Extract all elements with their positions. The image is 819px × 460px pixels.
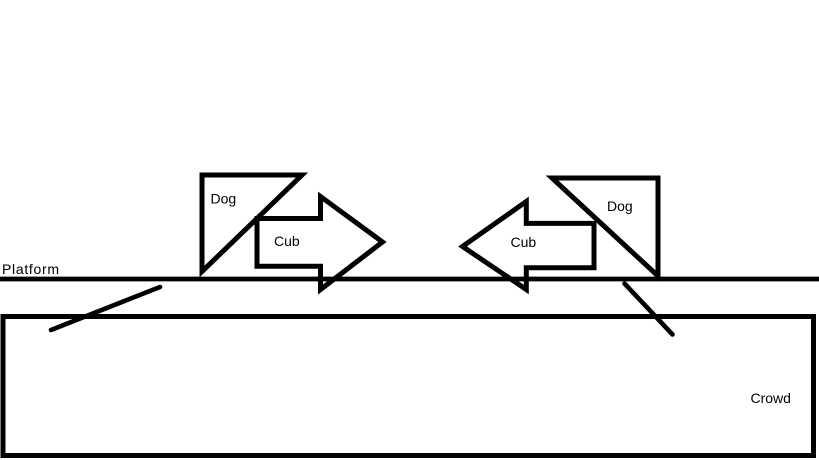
triangle Dog right	[552, 178, 658, 276]
svg-text:Cub: Cub	[511, 234, 537, 250]
svg-text:Platform: Platform	[2, 261, 60, 277]
diagonal connector right	[625, 284, 673, 335]
triangle Dog left	[202, 175, 302, 272]
svg-text:Crowd: Crowd	[751, 390, 791, 406]
block arrow Cub left-pointing	[463, 202, 595, 290]
block arrow Cub right-pointing	[257, 197, 383, 290]
diagonal connector left	[51, 287, 160, 330]
svg-text:Cub: Cub	[274, 233, 300, 249]
crowd rectangle	[3, 317, 814, 456]
svg-text:Dog: Dog	[211, 191, 237, 207]
platform line	[0, 277, 819, 282]
svg-text:Dog: Dog	[607, 198, 633, 214]
